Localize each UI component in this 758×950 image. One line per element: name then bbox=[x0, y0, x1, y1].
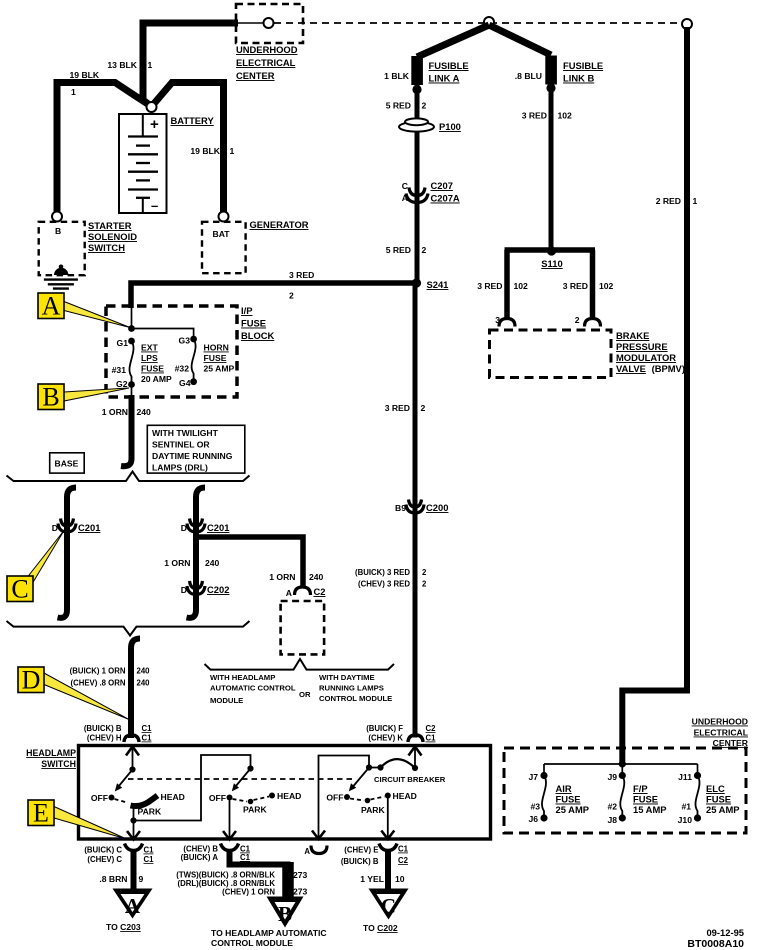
svg-text:5 RED: 5 RED bbox=[386, 101, 411, 111]
connector C2/C1 (switch input right) bbox=[366, 724, 436, 743]
svg-text:(CHEV) H: (CHEV) H bbox=[87, 734, 122, 743]
svg-text:1: 1 bbox=[148, 60, 153, 70]
svg-text:FUSIBLE: FUSIBLE bbox=[563, 60, 603, 71]
svg-text:273: 273 bbox=[293, 887, 308, 897]
svg-text:B: B bbox=[42, 383, 59, 412]
bracket (upper harness break) bbox=[7, 472, 250, 482]
svg-text:2: 2 bbox=[421, 403, 426, 413]
svg-text:(BUICK) F: (BUICK) F bbox=[366, 724, 403, 733]
svg-text:09-12-95: 09-12-95 bbox=[706, 927, 744, 938]
svg-text:CIRCUIT BREAKER: CIRCUIT BREAKER bbox=[374, 775, 446, 784]
svg-text:C2: C2 bbox=[426, 724, 437, 733]
svg-text:A: A bbox=[286, 588, 292, 598]
svg-text:B: B bbox=[55, 226, 61, 236]
svg-text:P100: P100 bbox=[439, 121, 461, 132]
svg-text:A: A bbox=[125, 894, 141, 918]
svg-text:102: 102 bbox=[558, 111, 573, 121]
svg-text:G4: G4 bbox=[179, 378, 191, 388]
svg-text:240: 240 bbox=[137, 407, 152, 417]
svg-text:(CHEV) E: (CHEV) E bbox=[344, 846, 378, 855]
label with headlamp automatic control module bbox=[210, 673, 392, 705]
svg-text:2: 2 bbox=[422, 101, 427, 111]
bracket (lower harness break) bbox=[7, 621, 250, 636]
svg-text:C201: C201 bbox=[207, 522, 229, 533]
node: junction circle at top center bbox=[484, 17, 494, 27]
svg-text:HORN: HORN bbox=[204, 343, 229, 353]
wire 3 RED to headlamp switch bbox=[355, 505, 427, 738]
underhood electrical center (top) box bbox=[236, 4, 303, 81]
battery bbox=[119, 114, 214, 213]
switch 3 wiper arm bbox=[349, 768, 369, 792]
svg-text:15 AMP: 15 AMP bbox=[633, 804, 667, 815]
svg-text:J10: J10 bbox=[678, 815, 693, 825]
wire 3 RED right leg bbox=[563, 250, 614, 325]
svg-text:TO C202: TO C202 bbox=[363, 923, 398, 933]
svg-text:240: 240 bbox=[137, 667, 151, 676]
BASE box bbox=[50, 453, 84, 473]
fusible link B bbox=[489, 25, 603, 93]
svg-text:C207A: C207A bbox=[431, 193, 460, 204]
svg-text:C1: C1 bbox=[240, 853, 251, 862]
svg-text:AUTOMATIC CONTROL: AUTOMATIC CONTROL bbox=[210, 684, 296, 693]
svg-text:OFF: OFF bbox=[209, 793, 226, 803]
svg-text:ELECTRICAL: ELECTRICAL bbox=[236, 57, 296, 68]
svg-text:1 BLK: 1 BLK bbox=[384, 71, 410, 81]
svg-text:(CHEV) C: (CHEV) C bbox=[87, 855, 122, 864]
svg-text:RUNNING LAMPS: RUNNING LAMPS bbox=[319, 684, 384, 693]
svg-text:#2: #2 bbox=[607, 802, 617, 812]
svg-text:G3: G3 bbox=[179, 336, 191, 346]
wire center branch below bracket bbox=[187, 488, 206, 618]
svg-text:(CHEV) 3 RED: (CHEV) 3 RED bbox=[358, 580, 410, 589]
svg-text:C202: C202 bbox=[207, 584, 229, 595]
svg-text:13 BLK: 13 BLK bbox=[107, 60, 137, 70]
switch 3 output wire bbox=[381, 796, 394, 840]
svg-text:OFF: OFF bbox=[91, 793, 108, 803]
svg-text:C1: C1 bbox=[426, 734, 437, 743]
svg-text:BLOCK: BLOCK bbox=[241, 330, 275, 341]
I/P fuse block box bbox=[106, 305, 275, 397]
node: battery positive terminal bbox=[147, 102, 157, 112]
svg-text:J6: J6 bbox=[528, 814, 538, 824]
svg-text:273: 273 bbox=[293, 870, 308, 880]
connector C1 (switch input left) bbox=[84, 724, 152, 743]
svg-text:G1: G1 bbox=[117, 338, 129, 348]
node: terminal circle top right bbox=[682, 19, 692, 29]
node: UEC feed junction bbox=[544, 750, 698, 776]
svg-text:SWITCH: SWITCH bbox=[88, 242, 125, 253]
starter solenoid switch bbox=[39, 220, 137, 275]
svg-text:3 RED: 3 RED bbox=[385, 403, 410, 413]
svg-text:102: 102 bbox=[599, 281, 614, 291]
svg-text:WITH TWILIGHT: WITH TWILIGHT bbox=[152, 428, 219, 438]
dashed bus wire across top bbox=[274, 22, 684, 24]
svg-text:OR: OR bbox=[299, 690, 311, 699]
fuse AIR #3 bbox=[528, 772, 589, 824]
svg-text:(BUICK) B: (BUICK) B bbox=[84, 724, 122, 733]
wire left branch below bracket bbox=[58, 488, 77, 618]
wire to C207 bbox=[415, 131, 420, 283]
svg-text:J9: J9 bbox=[607, 772, 617, 782]
svg-text:(BUICK) A: (BUICK) A bbox=[181, 853, 219, 862]
wire 3 RED S241 down bbox=[385, 283, 426, 510]
svg-text:CONTROL MODULE: CONTROL MODULE bbox=[319, 694, 392, 703]
connector C1 (switch output 2) bbox=[181, 844, 251, 863]
svg-text:1 ORN: 1 ORN bbox=[164, 558, 190, 568]
svg-text:(BUICK) 3 RED: (BUICK) 3 RED bbox=[355, 568, 410, 577]
svg-text:F/P: F/P bbox=[633, 783, 648, 794]
switch 2 contacts bbox=[209, 791, 302, 815]
svg-text:A: A bbox=[304, 847, 310, 856]
label tag D bbox=[18, 666, 129, 720]
wire 5 RED lower bbox=[386, 245, 427, 255]
svg-text:FUSE: FUSE bbox=[141, 364, 164, 374]
wire .8 BRN to grounds bbox=[99, 851, 143, 890]
label tag E bbox=[28, 799, 127, 840]
svg-text:B: B bbox=[278, 902, 292, 926]
svg-text:TO C203: TO C203 bbox=[106, 922, 141, 932]
fuse EXT LPS #31 bbox=[112, 338, 172, 389]
connector C207/C207A bbox=[402, 180, 460, 204]
svg-text:CENTER: CENTER bbox=[236, 70, 275, 81]
svg-text:C: C bbox=[402, 181, 408, 191]
svg-text:2: 2 bbox=[422, 580, 427, 589]
svg-text:–: – bbox=[151, 198, 158, 213]
svg-text:19 BLK: 19 BLK bbox=[70, 70, 100, 80]
svg-text:OFF: OFF bbox=[326, 793, 343, 803]
svg-text:FUSIBLE: FUSIBLE bbox=[429, 60, 469, 71]
svg-text:25 AMP: 25 AMP bbox=[556, 804, 590, 815]
svg-text:1 YEL: 1 YEL bbox=[360, 874, 384, 884]
node: generator terminal BAT bbox=[219, 212, 229, 222]
svg-text:ELC: ELC bbox=[706, 783, 725, 794]
svg-text:LPS: LPS bbox=[141, 353, 158, 363]
svg-text:(BUICK) B: (BUICK) B bbox=[341, 857, 379, 866]
svg-text:BATTERY: BATTERY bbox=[171, 115, 215, 126]
svg-text:D: D bbox=[52, 523, 58, 533]
svg-text:1 ORN: 1 ORN bbox=[269, 572, 295, 582]
switch 1 lever (to HEAD) bbox=[131, 792, 185, 817]
svg-text:LAMPS (DRL): LAMPS (DRL) bbox=[152, 463, 208, 473]
node: terminal circle inside UEC bbox=[238, 18, 274, 28]
svg-text:2: 2 bbox=[422, 568, 427, 577]
connector C201 (center) bbox=[181, 519, 230, 534]
svg-text:C1: C1 bbox=[398, 845, 409, 854]
svg-text:GENERATOR: GENERATOR bbox=[250, 219, 309, 230]
svg-text:PARK: PARK bbox=[138, 807, 163, 817]
svg-text:LINK A: LINK A bbox=[429, 73, 460, 84]
svg-text:SOLENOID: SOLENOID bbox=[88, 231, 137, 242]
connector C202 bbox=[181, 581, 230, 595]
connector pin 3 (BPMV) bbox=[499, 319, 515, 327]
svg-text:5 RED: 5 RED bbox=[386, 245, 411, 255]
off-page triangle B bbox=[211, 897, 327, 949]
off-page triangle C bbox=[363, 889, 409, 934]
svg-text:#31: #31 bbox=[112, 365, 127, 375]
svg-text:(BUICK) C: (BUICK) C bbox=[84, 846, 122, 855]
wire 1 ORN below fuse bbox=[102, 385, 151, 467]
splice S110 bbox=[541, 246, 562, 269]
svg-text:TO HEADLAMP AUTOMATIC: TO HEADLAMP AUTOMATIC bbox=[211, 928, 327, 938]
wire 3 RED feed to I/P fuse block bbox=[131, 270, 414, 308]
svg-text:LINK B: LINK B bbox=[563, 73, 594, 84]
fusible link A bbox=[384, 25, 489, 94]
svg-text:EXT: EXT bbox=[141, 343, 158, 353]
wire 1 ORN branch to C2 bbox=[164, 537, 323, 586]
svg-text:WITH DAYTIME: WITH DAYTIME bbox=[319, 673, 375, 682]
svg-text:1: 1 bbox=[693, 196, 698, 206]
fuse ELC #1 bbox=[678, 772, 740, 825]
svg-text:20 AMP: 20 AMP bbox=[141, 374, 172, 384]
svg-text:AIR: AIR bbox=[556, 783, 572, 794]
svg-text:102: 102 bbox=[514, 281, 529, 291]
svg-text:2: 2 bbox=[289, 291, 294, 301]
svg-text:ELECTRICAL: ELECTRICAL bbox=[694, 728, 748, 738]
wire 5 RED upper bbox=[386, 85, 427, 120]
svg-text:3 RED: 3 RED bbox=[477, 281, 502, 291]
switch 3 input arrow bbox=[409, 747, 422, 769]
svg-text:I/P: I/P bbox=[241, 305, 252, 316]
splice S241 bbox=[412, 278, 449, 290]
svg-text:2: 2 bbox=[575, 315, 580, 325]
switch linkage (dashed) bbox=[128, 778, 352, 780]
svg-text:10: 10 bbox=[395, 874, 405, 884]
svg-text:E: E bbox=[33, 799, 49, 828]
svg-text:UNDERHOOD: UNDERHOOD bbox=[236, 44, 298, 55]
svg-text:C: C bbox=[381, 894, 396, 918]
svg-text:FUSE: FUSE bbox=[633, 794, 658, 805]
svg-text:C1: C1 bbox=[142, 724, 153, 733]
switch 3 contacts bbox=[326, 791, 417, 815]
circuit breaker bbox=[369, 759, 446, 784]
wire 19 BLK battery to starter bbox=[57, 70, 152, 213]
switch 2 wiper arm bbox=[232, 769, 251, 792]
svg-text:2 RED: 2 RED bbox=[656, 196, 681, 206]
svg-text:HEAD: HEAD bbox=[393, 791, 417, 801]
svg-text:C1: C1 bbox=[144, 846, 155, 855]
svg-text:.8 BLU: .8 BLU bbox=[515, 71, 542, 81]
svg-text:9: 9 bbox=[139, 874, 144, 884]
svg-text:3 RED: 3 RED bbox=[289, 270, 314, 280]
svg-text:MODULE: MODULE bbox=[210, 696, 243, 705]
off-page triangle A bbox=[106, 889, 153, 933]
wire 13 BLK from UEC to battery bbox=[107, 23, 238, 107]
svg-text:C200: C200 bbox=[426, 502, 448, 513]
svg-text:B9: B9 bbox=[395, 503, 406, 513]
headlamp switch box bbox=[26, 746, 490, 840]
ground (starter) bbox=[44, 280, 78, 289]
fuse HORN #32 bbox=[175, 336, 235, 389]
svg-text:C207: C207 bbox=[431, 180, 453, 191]
generator bbox=[202, 219, 309, 273]
svg-text:C1: C1 bbox=[142, 734, 153, 743]
svg-text:1: 1 bbox=[71, 87, 76, 97]
svg-text:STARTER: STARTER bbox=[88, 220, 132, 231]
wire ORN/BLK to module bbox=[176, 851, 307, 897]
wire S110 branch bar bbox=[505, 247, 596, 253]
svg-text:(CHEV) .8 ORN: (CHEV) .8 ORN bbox=[70, 679, 125, 688]
svg-text:C1: C1 bbox=[144, 855, 155, 864]
svg-text:CONTROL MODULE: CONTROL MODULE bbox=[211, 938, 293, 948]
svg-text:(CHEV) K: (CHEV) K bbox=[368, 734, 403, 743]
svg-text:(BUICK) 1 ORN: (BUICK) 1 ORN bbox=[70, 667, 126, 676]
brake pressure modulator valve box bbox=[490, 330, 685, 378]
wire 3 RED left leg bbox=[477, 250, 528, 325]
switch 2 output wire bbox=[223, 801, 236, 840]
headlamp control module box bbox=[281, 601, 325, 654]
wire link to switch 3 bbox=[312, 756, 372, 840]
label tag B bbox=[38, 383, 129, 412]
svg-text:D: D bbox=[22, 666, 41, 695]
svg-text:A: A bbox=[402, 193, 408, 203]
wire 1 YEL bbox=[360, 851, 405, 889]
wire 2 RED right side bbox=[622, 27, 697, 763]
svg-text:25 AMP: 25 AMP bbox=[204, 364, 235, 374]
with twilight sentinel box bbox=[147, 425, 245, 473]
svg-text:S241: S241 bbox=[427, 279, 449, 290]
svg-text:240: 240 bbox=[309, 572, 324, 582]
svg-text:1 ORN: 1 ORN bbox=[102, 407, 128, 417]
svg-text:SWITCH: SWITCH bbox=[41, 759, 76, 769]
svg-text:HEADLAMP: HEADLAMP bbox=[26, 748, 76, 758]
date stamp bbox=[687, 927, 744, 950]
switch 1 input arrow bbox=[126, 747, 139, 773]
svg-text:FUSE: FUSE bbox=[204, 353, 227, 363]
node: fuse block feed junction bbox=[128, 306, 194, 339]
grommet P100 bbox=[399, 118, 461, 135]
svg-text:J8: J8 bbox=[607, 815, 617, 825]
svg-text:#1: #1 bbox=[681, 802, 691, 812]
svg-text:J11: J11 bbox=[678, 772, 692, 782]
wire 3 RED to S110 bbox=[522, 84, 572, 250]
svg-text:BT0008A10: BT0008A10 bbox=[687, 938, 744, 950]
svg-text:FUSE: FUSE bbox=[241, 318, 266, 329]
svg-text:UNDERHOOD: UNDERHOOD bbox=[692, 717, 748, 727]
svg-text:SENTINEL OR: SENTINEL OR bbox=[152, 440, 210, 450]
connector C1 (switch output 1) bbox=[84, 844, 154, 865]
connector C1/C2 (switch output 3) bbox=[341, 844, 409, 867]
connector A (unused) bbox=[304, 846, 327, 857]
svg-text:PARK: PARK bbox=[243, 805, 268, 815]
svg-text:BASE: BASE bbox=[55, 459, 79, 469]
svg-text:A: A bbox=[42, 292, 61, 321]
svg-text:J7: J7 bbox=[528, 772, 538, 782]
svg-text:G2: G2 bbox=[116, 379, 128, 389]
svg-text:#3: #3 bbox=[530, 802, 540, 812]
svg-text:#32: #32 bbox=[175, 364, 190, 374]
svg-text:C201: C201 bbox=[78, 522, 100, 533]
svg-text:240: 240 bbox=[205, 558, 220, 568]
svg-text:3 RED: 3 RED bbox=[563, 281, 588, 291]
svg-text:FUSE: FUSE bbox=[706, 794, 731, 805]
svg-text:D: D bbox=[181, 585, 187, 595]
switch 1 output wire bbox=[127, 804, 140, 840]
svg-text:C2: C2 bbox=[314, 586, 326, 597]
svg-text:PARK: PARK bbox=[361, 805, 386, 815]
switch 1 OFF contact bbox=[91, 793, 127, 803]
label tag A bbox=[38, 292, 130, 328]
wire 19 BLK battery to generator bbox=[152, 83, 235, 214]
svg-text:FUSE: FUSE bbox=[556, 794, 581, 805]
connector pin 2 (BPMV) bbox=[585, 319, 601, 327]
svg-text:3 RED: 3 RED bbox=[522, 111, 547, 121]
svg-text:240: 240 bbox=[137, 679, 151, 688]
node: starter terminal B bbox=[52, 212, 62, 222]
svg-text:+: + bbox=[150, 116, 159, 133]
svg-text:HEAD: HEAD bbox=[277, 791, 301, 801]
svg-text:WITH HEADLAMP: WITH HEADLAMP bbox=[210, 673, 275, 682]
svg-text:C2: C2 bbox=[398, 856, 409, 865]
bracket (module options) bbox=[205, 659, 395, 670]
svg-text:HEAD: HEAD bbox=[161, 792, 185, 802]
svg-text:S110: S110 bbox=[541, 258, 562, 269]
connector C201 (left) bbox=[52, 519, 101, 534]
underhood electrical center (bottom) box bbox=[504, 717, 749, 834]
svg-text:(CHEV) 1 ORN: (CHEV) 1 ORN bbox=[222, 888, 275, 897]
svg-text:DAYTIME RUNNING: DAYTIME RUNNING bbox=[152, 451, 233, 461]
switch 1 wiper arm bbox=[115, 770, 133, 792]
svg-text:.8 BRN: .8 BRN bbox=[99, 874, 127, 884]
svg-text:D: D bbox=[181, 523, 187, 533]
wire link switch1 to switch2 bbox=[134, 755, 254, 821]
wire 1 ORN to headlamp switch bbox=[70, 639, 151, 739]
svg-text:19 BLK: 19 BLK bbox=[190, 146, 220, 156]
svg-text:1: 1 bbox=[230, 146, 235, 156]
svg-text:25 AMP: 25 AMP bbox=[706, 804, 740, 815]
label tag C bbox=[7, 531, 64, 604]
svg-text:2: 2 bbox=[422, 245, 427, 255]
svg-text:BAT: BAT bbox=[213, 229, 231, 239]
fuse F/P #2 bbox=[607, 772, 666, 825]
connector C200 bbox=[395, 500, 448, 514]
connector C2 (module) bbox=[286, 586, 326, 598]
svg-text:C: C bbox=[11, 575, 28, 604]
